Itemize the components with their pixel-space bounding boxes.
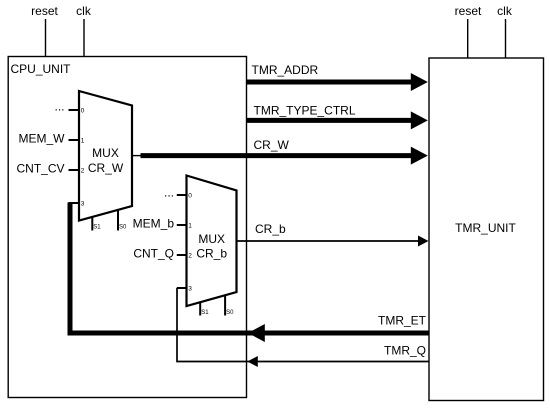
mux MUX CR_b [187, 176, 237, 307]
svg-text:2: 2 [81, 167, 85, 174]
svg-text:reset: reset [455, 4, 482, 18]
svg-text:clk: clk [497, 4, 513, 18]
svg-text:3: 3 [188, 285, 192, 292]
arrowhead CR_b [418, 236, 429, 247]
wire CR_W stub from mux output [132, 155, 142, 157]
pin tick 1 (MUX CR_W) [69, 139, 80, 141]
svg-text:CR_b: CR_b [196, 246, 227, 260]
svg-text:CR_b: CR_b [255, 222, 286, 236]
svg-text:CR_W: CR_W [254, 138, 290, 152]
svg-text:S1: S1 [93, 225, 101, 231]
arrowhead CR_W [411, 147, 428, 165]
wire TMR_Q (horizontal + vertical feedback to MUX CR_b pin 3) [177, 288, 429, 362]
svg-text:CNT_Q: CNT_Q [133, 247, 174, 261]
arrowhead TMR_ET [248, 324, 265, 342]
svg-text:1: 1 [81, 137, 85, 144]
svg-text:S0: S0 [119, 225, 127, 231]
svg-text:TMR_UNIT: TMR_UNIT [455, 221, 516, 235]
wire clk (TMR) [505, 19, 507, 58]
svg-text:...: ... [54, 100, 64, 114]
wire select S1 (MUX CR_W) [91, 217, 93, 231]
wire reset (TMR) [467, 19, 469, 58]
pin tick 3 (MUX CR_b) [177, 287, 188, 289]
pin tick 2 (MUX CR_W) [69, 169, 80, 171]
bus TMR_ADDR [247, 80, 412, 85]
svg-text:CPU_UNIT: CPU_UNIT [11, 62, 72, 76]
svg-text:TMR_TYPE_CTRL: TMR_TYPE_CTRL [254, 104, 356, 118]
svg-text:MEM_b: MEM_b [133, 217, 175, 231]
svg-text:S0: S0 [226, 310, 234, 316]
svg-text:MUX: MUX [92, 146, 119, 160]
svg-text:1: 1 [188, 222, 192, 229]
svg-text:reset: reset [31, 4, 58, 18]
arrowhead TMR_ADDR [411, 73, 428, 91]
block CPU_UNIT [8, 57, 246, 398]
bus CR_W [141, 153, 413, 158]
svg-text:0: 0 [188, 192, 192, 199]
svg-text:S1: S1 [201, 310, 209, 316]
svg-text:CR_W: CR_W [88, 161, 124, 175]
svg-text:clk: clk [76, 4, 92, 18]
svg-text:0: 0 [81, 107, 85, 114]
wire reset (CPU) [45, 19, 47, 57]
svg-text:TMR_ET: TMR_ET [378, 314, 427, 328]
wire clk (CPU) [83, 19, 85, 57]
svg-text:3: 3 [81, 200, 85, 207]
block TMR_UNIT [429, 58, 544, 401]
bus TMR_TYPE_CTRL [247, 118, 412, 123]
wire select S0 (MUX CR_W) [117, 210, 119, 231]
svg-text:CNT_CV: CNT_CV [16, 161, 64, 175]
pin tick 2 (MUX CR_b) [177, 254, 188, 256]
mux MUX CR_W [79, 91, 132, 221]
svg-text:...: ... [164, 186, 174, 200]
svg-text:MUX: MUX [198, 232, 225, 246]
svg-text:MEM_W: MEM_W [19, 131, 66, 145]
arrowhead TMR_Q [247, 356, 257, 367]
pin tick 0 (MUX CR_b) [177, 194, 188, 196]
svg-text:2: 2 [188, 252, 192, 259]
svg-text:TMR_Q: TMR_Q [384, 344, 426, 358]
pin tick 3 (MUX CR_W) [69, 202, 80, 204]
wire select S1 (MUX CR_b) [199, 302, 201, 315]
svg-text:TMR_ADDR: TMR_ADDR [252, 63, 319, 77]
bus TMR_ET (horizontal + vertical feedback to MUX CR_W pin 3) [70, 203, 429, 334]
pin tick 1 (MUX CR_b) [177, 224, 188, 226]
wire CR_b [236, 240, 419, 242]
pin tick 0 (MUX CR_W) [69, 109, 80, 111]
wire select S0 (MUX CR_b) [224, 295, 226, 315]
arrowhead TMR_TYPE_CTRL [411, 111, 428, 129]
